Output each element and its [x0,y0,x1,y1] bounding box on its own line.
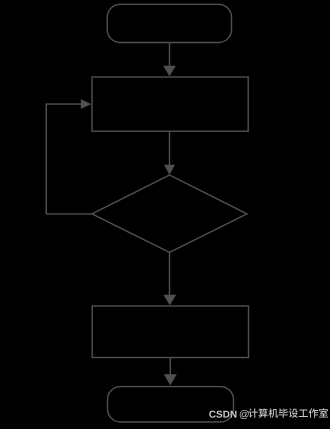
arrowhead into P1 left [81,99,92,109]
process box P2 [92,306,248,358]
decision diamond D1 [92,175,247,252]
process box P1 [92,77,248,131]
wire: D1 loop back to P1 left side [46,104,92,214]
watermark text: CJK 计算机毕设工作室 (vector) [248,408,328,418]
wire: P1 to decision D1 [169,131,171,165]
terminator: end (bottom stadium) [108,387,234,422]
arrowhead into P2 top [163,295,176,306]
arrowhead into P1 top [163,66,176,77]
wire: P2 to end terminator [169,358,171,375]
arrowhead into D1 top [164,165,175,175]
watermark text: CSDN (bold, vector) [209,411,236,418]
watermark text: @ (vector) [240,410,249,419]
wire: D1 to process P2 [169,252,171,295]
wire: start to process P1 [169,43,171,67]
terminator: start (top stadium) [107,4,231,42]
arrowhead into end terminator [164,374,177,385]
